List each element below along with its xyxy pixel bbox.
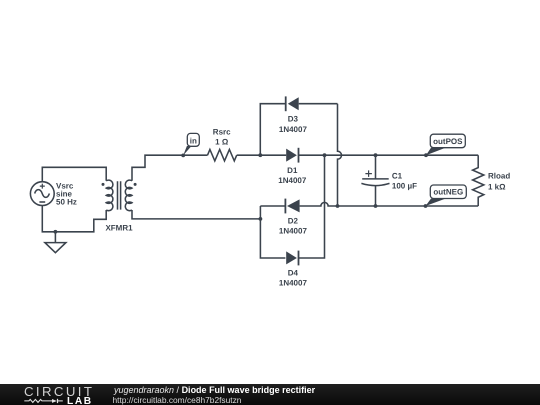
svg-text:1N4007: 1N4007 bbox=[279, 227, 308, 236]
transformer XFMR1 primary coil bbox=[106, 180, 113, 211]
node label outPOS bbox=[426, 134, 465, 155]
label C1 100uF bbox=[392, 172, 417, 191]
node junction main-left bbox=[258, 153, 262, 157]
svg-text:100 µF: 100 µF bbox=[392, 182, 417, 191]
svg-text:1N4007: 1N4007 bbox=[279, 125, 308, 134]
wire D3 to right vertical bbox=[299, 103, 338, 105]
svg-text:1N4007: 1N4007 bbox=[279, 279, 308, 288]
diode D4 bbox=[286, 251, 298, 266]
label D4 bbox=[279, 268, 308, 287]
wire Rsrc to bridge bbox=[237, 154, 287, 156]
svg-text:Rsrc: Rsrc bbox=[213, 127, 231, 136]
logo CIRCUIT bbox=[24, 384, 94, 399]
label D3 bbox=[279, 115, 308, 134]
transformer core bbox=[118, 181, 121, 209]
wire Vsrc top to primary bbox=[42, 167, 106, 181]
node junction secondary bottom bbox=[259, 217, 263, 221]
svg-text:D2: D2 bbox=[288, 217, 299, 226]
node in junction bbox=[181, 154, 185, 158]
resistor Rload bbox=[473, 155, 484, 206]
node junction C1 top bbox=[374, 153, 378, 157]
wire D2 row left vertical bbox=[260, 206, 285, 258]
footer title line bbox=[114, 385, 315, 395]
svg-text:Rload: Rload bbox=[488, 172, 510, 181]
node ground junction bbox=[54, 230, 58, 234]
svg-text:XFMR1: XFMR1 bbox=[105, 224, 133, 233]
transformer polarity dot secondary bbox=[134, 183, 137, 186]
label D2 bbox=[279, 217, 308, 236]
label Rsrc 1 ohm bbox=[213, 127, 231, 146]
node junction outNEG bbox=[424, 204, 428, 208]
diode D3 bbox=[286, 96, 299, 111]
svg-text:D1: D1 bbox=[287, 166, 298, 175]
diode D1 bbox=[286, 148, 298, 163]
label Vsrc sine 50 Hz bbox=[56, 181, 77, 206]
svg-text:C1: C1 bbox=[392, 172, 403, 181]
svg-text:D4: D4 bbox=[288, 268, 299, 277]
svg-text:1 Ω: 1 Ω bbox=[215, 138, 229, 147]
transformer XFMR1 secondary coil bbox=[125, 180, 132, 211]
logo mini schematic bbox=[24, 396, 70, 405]
wire main row D1 to Rload corner bbox=[299, 154, 479, 156]
label D1 bbox=[278, 166, 307, 185]
wire secondary bottom bbox=[132, 210, 260, 219]
node junction C1 bottom bbox=[374, 204, 378, 208]
wire vertical D1 junction down to D4 row bbox=[299, 155, 325, 258]
wire D2 row with hop over D4 vertical bbox=[260, 202, 478, 206]
node label outNEG bbox=[426, 185, 467, 206]
node junction outPOS bbox=[424, 153, 428, 157]
svg-text:D3: D3 bbox=[288, 115, 299, 124]
voltage source Vsrc bbox=[30, 182, 54, 206]
wire secondary top to main row bbox=[132, 155, 208, 181]
footer bar bbox=[0, 384, 540, 405]
label Rload 1k bbox=[488, 172, 510, 192]
footer url line bbox=[113, 395, 242, 405]
wire Vsrc bottom bbox=[42, 206, 106, 232]
transformer polarity dot primary bbox=[102, 183, 105, 186]
svg-text:50 Hz: 50 Hz bbox=[56, 197, 77, 206]
wire left vertical up to D3 row bbox=[260, 104, 285, 156]
svg-text:1 kΩ: 1 kΩ bbox=[488, 183, 506, 192]
svg-text:outPOS: outPOS bbox=[433, 137, 463, 146]
node junction D2 row / D3 vertical bbox=[336, 204, 340, 208]
logo LAB bbox=[67, 396, 93, 405]
capacitor C1 bbox=[361, 155, 389, 206]
svg-text:1N4007: 1N4007 bbox=[278, 176, 307, 185]
svg-text:outNEG: outNEG bbox=[433, 188, 463, 197]
svg-text:in: in bbox=[190, 137, 197, 146]
diode D2 bbox=[285, 199, 299, 214]
wire right vertical with hop over main row bbox=[338, 104, 342, 206]
node junction D1-D4 bbox=[323, 153, 327, 157]
ground bbox=[45, 232, 66, 253]
resistor Rsrc bbox=[208, 150, 237, 161]
node label in bbox=[183, 133, 199, 155]
